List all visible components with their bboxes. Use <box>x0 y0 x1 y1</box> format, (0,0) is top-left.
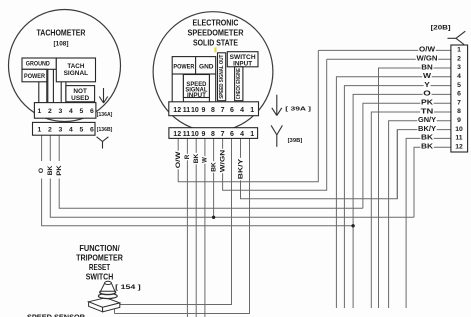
svg-text:11: 11 <box>183 107 191 114</box>
svg-text:6: 6 <box>230 131 234 138</box>
svg-text:9: 9 <box>201 131 205 138</box>
svg-text:PK: PK <box>57 164 63 175</box>
svg-text:CHECK ENGINE: CHECK ENGINE <box>236 68 242 99</box>
svg-text:2: 2 <box>48 127 52 134</box>
svg-text:O: O <box>423 90 431 98</box>
connector 20B box <box>451 45 468 152</box>
wire W/GN speedo pin7 to 20B pin2 <box>223 59 327 190</box>
tach connector 136B <box>33 122 96 135</box>
svg-text:O/W: O/W <box>419 46 435 54</box>
svg-text:SPEEDOMETER: SPEEDOMETER <box>188 28 244 37</box>
wire PK tach horizontal net <box>59 179 363 209</box>
svg-text:7: 7 <box>221 107 225 114</box>
svg-text:NOT: NOT <box>73 88 87 95</box>
svg-text:TN: TN <box>421 107 434 115</box>
svg-text:TACHOMETER: TACHOMETER <box>37 29 86 38</box>
svg-text:10: 10 <box>191 107 199 114</box>
wire reset switch upper <box>120 304 232 306</box>
svg-text:O/W: O/W <box>175 151 182 169</box>
wire BK tach horizontal net <box>50 179 414 218</box>
wire R speedo pin11 down <box>186 138 188 317</box>
svg-text:BK/Y: BK/Y <box>418 125 436 133</box>
svg-text:6: 6 <box>90 108 94 115</box>
speedo SWITCH INPUT box <box>227 52 258 67</box>
tach GROUND box <box>22 58 56 69</box>
svg-text:GN/Y: GN/Y <box>418 116 436 124</box>
svg-text:Y: Y <box>424 81 430 89</box>
svg-text:1: 1 <box>250 131 254 138</box>
20B pin numbers <box>455 47 463 151</box>
wire 20B pin8 TN <box>371 112 451 308</box>
svg-text:BK: BK <box>421 134 434 142</box>
arrow 136A <box>99 88 107 103</box>
speedo CHECK ENGINE box <box>235 67 243 101</box>
svg-text:GROUND: GROUND <box>26 61 51 68</box>
svg-text:O: O <box>39 168 45 174</box>
speedo wire labels <box>174 151 182 170</box>
wire O tach horizontal net <box>42 179 354 226</box>
svg-text:8: 8 <box>457 108 461 115</box>
svg-text:11: 11 <box>183 131 191 138</box>
svg-text:12: 12 <box>173 131 181 138</box>
wire speedo pin1 to switch bottom <box>115 138 250 313</box>
speedo connector 39B <box>169 128 258 139</box>
svg-text:4: 4 <box>69 127 73 134</box>
svg-text:BK: BK <box>210 162 217 172</box>
tachometer circle <box>9 10 121 122</box>
wire 20B pin4 W <box>336 77 451 308</box>
svg-text:BK: BK <box>193 154 200 164</box>
svg-text:2: 2 <box>48 108 52 115</box>
svg-text:8: 8 <box>211 131 215 138</box>
svg-text:BK: BK <box>421 143 434 151</box>
fork symbol 136B <box>97 137 109 149</box>
tach connector 136A <box>34 103 96 119</box>
svg-text:[ 154 ]: [ 154 ] <box>115 284 141 291</box>
wire 20B pin11 BK <box>406 138 451 308</box>
switch button cone <box>101 284 115 292</box>
wire W speedo pin9 down <box>204 138 206 317</box>
tach TACH SIGNAL box <box>56 58 95 82</box>
speedo power gnd legs <box>171 74 173 102</box>
wire switch bottom stub <box>114 309 116 314</box>
svg-text:4: 4 <box>240 107 244 114</box>
svg-text:8: 8 <box>211 107 215 114</box>
svg-text:SPEED SENSOR: SPEED SENSOR <box>27 312 86 317</box>
svg-text:[ 39A ]: [ 39A ] <box>285 107 311 113</box>
fork symbol 39B <box>271 125 282 146</box>
svg-text:[39B]: [39B] <box>288 138 303 144</box>
svg-text:SOLID STATE: SOLID STATE <box>193 39 238 48</box>
svg-text:12: 12 <box>455 143 463 150</box>
wire 20B pin7 PK stub <box>363 103 451 208</box>
svg-text:POWER: POWER <box>24 73 46 80</box>
tach wire labels O BK PK <box>38 167 46 174</box>
wire BK/Y speedo pin4 to 20B pin10 <box>241 130 398 199</box>
svg-text:[108]: [108] <box>54 40 69 47</box>
svg-text:W: W <box>423 72 431 80</box>
svg-text:BK: BK <box>48 165 54 175</box>
yellow artifact <box>214 47 216 52</box>
svg-text:6: 6 <box>457 91 461 98</box>
20B wire name labels <box>416 45 438 150</box>
tach POWER box <box>22 69 47 82</box>
wire O/W speedo pin12 to 20B pin1 <box>178 50 318 181</box>
svg-text:3: 3 <box>457 64 461 71</box>
svg-text:10: 10 <box>191 131 199 138</box>
svg-text:GND: GND <box>199 63 214 70</box>
tach power leg <box>38 82 40 103</box>
speedometer circle <box>153 12 273 132</box>
wire 20B pin9 GN/Y <box>389 121 451 308</box>
wire 20B pin10 BK/Y stub <box>397 130 451 199</box>
svg-text:W/GN: W/GN <box>417 55 438 63</box>
speedo connector 39A <box>169 102 259 116</box>
wire tach pin2 BK upper segment <box>49 135 51 161</box>
svg-text:7: 7 <box>457 99 461 106</box>
svg-text:PK: PK <box>421 99 434 107</box>
wire BK speedo pin10 down <box>195 138 197 317</box>
svg-text:TACH: TACH <box>67 63 84 70</box>
wire 20B pin5 Y <box>344 86 451 308</box>
svg-text:1: 1 <box>250 107 254 114</box>
wire 20B pin1 stub <box>318 49 451 51</box>
svg-text:[136B]: [136B] <box>97 127 113 133</box>
tach NOT USED box <box>66 86 95 102</box>
svg-text:7: 7 <box>221 131 225 138</box>
svg-text:BN: BN <box>421 63 433 71</box>
junction dot O net <box>351 224 354 227</box>
svg-text:SIGNAL: SIGNAL <box>64 70 89 77</box>
svg-text:[20B]: [20B] <box>431 25 451 32</box>
svg-text:TRIPOMETER: TRIPOMETER <box>76 253 123 263</box>
svg-text:[136A]: [136A] <box>97 112 113 118</box>
svg-text:5: 5 <box>80 108 84 115</box>
svg-text:1: 1 <box>38 127 42 134</box>
svg-text:POWER: POWER <box>173 63 195 70</box>
wire tach pin3 PK upper segment <box>58 135 60 161</box>
wire 20B pin6 O <box>353 94 451 308</box>
svg-text:6: 6 <box>90 127 94 134</box>
svg-text:1: 1 <box>38 108 42 115</box>
speedo SPEED SIGNAL OUT box <box>218 53 226 101</box>
svg-text:2: 2 <box>457 55 461 62</box>
reset switch symbol <box>89 281 120 312</box>
svg-text:W/GN: W/GN <box>219 149 226 172</box>
wire tach pin1 O upper segment <box>41 135 43 161</box>
svg-text:3: 3 <box>59 127 63 134</box>
wire 20B pin2 stub <box>327 58 451 60</box>
svg-text:W: W <box>202 157 209 163</box>
svg-text:12: 12 <box>173 107 181 114</box>
junction dot BK net <box>212 216 215 219</box>
svg-text:11: 11 <box>455 135 462 142</box>
svg-text:BK/Y: BK/Y <box>237 158 244 179</box>
svg-text:10: 10 <box>455 126 463 133</box>
svg-text:INPUT: INPUT <box>187 92 206 99</box>
tach signal leg <box>60 82 62 103</box>
svg-text:ELECTRONIC: ELECTRONIC <box>193 19 239 28</box>
speedo SPEED SIGNAL INPUT box <box>183 75 209 98</box>
svg-text:6: 6 <box>230 107 234 114</box>
svg-text:USED: USED <box>71 95 90 102</box>
svg-text:SWITCH: SWITCH <box>86 272 114 282</box>
svg-text:4: 4 <box>69 108 73 115</box>
svg-text:5: 5 <box>80 127 84 134</box>
svg-text:3: 3 <box>59 108 63 115</box>
svg-text:FUNCTION/: FUNCTION/ <box>79 243 120 253</box>
svg-text:SPEED SIGNAL OUT: SPEED SIGNAL OUT <box>219 54 225 99</box>
svg-text:R: R <box>184 155 191 160</box>
svg-text:5: 5 <box>457 82 461 89</box>
function tripometer reset switch labels <box>76 243 123 282</box>
switch base 3d box <box>89 298 120 308</box>
fork symbol 20B <box>448 31 466 44</box>
switch button rings <box>98 293 117 298</box>
wire speedo pin6 to reset switch <box>120 138 232 304</box>
svg-text:9: 9 <box>201 107 205 114</box>
svg-text:9: 9 <box>457 117 461 124</box>
svg-text:4: 4 <box>240 131 244 138</box>
arrow 39A <box>272 95 282 116</box>
svg-text:4: 4 <box>457 73 461 80</box>
wire 20B pin3 BN <box>379 68 451 308</box>
svg-text:1: 1 <box>457 47 461 54</box>
tach ground leg <box>47 69 49 102</box>
wire 20B pin12 BK stub <box>414 147 451 217</box>
speedo POWER GND box <box>172 57 216 74</box>
wire BK speedo pin8 to BK net <box>213 138 215 217</box>
